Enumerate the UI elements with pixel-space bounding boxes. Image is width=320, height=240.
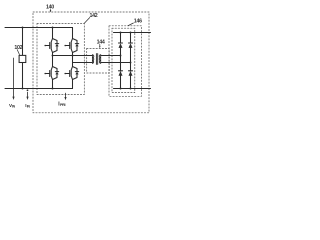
VIN measurement arrow: [13, 58, 15, 97]
leader arrow for 144: [99, 44, 101, 46]
svg-text:102: 102: [14, 45, 22, 51]
leader line for 102: [17, 50, 19, 55]
label 102: [14, 45, 22, 51]
node dot bottom bus at 102 branch: [22, 88, 24, 90]
label VIN: [9, 103, 16, 109]
label 140: [46, 4, 54, 10]
output bottom bus wire: [114, 88, 151, 90]
node dot leg B midpoint: [130, 62, 132, 64]
label IIN: [25, 103, 30, 109]
switch Q1 (upper left, with body diode): [44, 39, 58, 53]
diode D3 (upper leg B): [129, 43, 133, 48]
node dot top bus leg A: [120, 32, 122, 34]
rectifier leg B wire: [130, 33, 132, 44]
svg-text:IN: IN: [12, 105, 16, 109]
rectifier leg A wire: [120, 33, 122, 44]
bridge leg 2 wire bottom: [72, 80, 74, 89]
outer dashed box 140 (DC-DC converter): [33, 12, 149, 113]
bridge leg 1 wire middle: [52, 53, 54, 67]
node dot top bus at leg 1: [52, 27, 54, 29]
leader arrow for 140: [50, 10, 52, 12]
diode D4 (lower leg B): [129, 71, 133, 76]
svg-text:144: 144: [97, 40, 105, 46]
bridge leg 2 wire middle: [72, 53, 74, 67]
switch Q4 (lower right, with body diode): [64, 67, 78, 80]
bridge leg 2 wire top: [72, 28, 74, 39]
rectifier inner dashed box 146: [112, 28, 135, 92]
bridge leg 1 wire top: [52, 28, 54, 39]
node dot bottom bus leg B: [130, 88, 132, 90]
secondary wire to rectifier leg A: [101, 55, 121, 57]
component 102 (input sensor box): [22, 28, 24, 56]
switch Q2 (lower left, with body diode): [44, 67, 58, 80]
IPRI measurement arrow: [65, 93, 67, 97]
diode D2 (lower leg A): [119, 71, 123, 76]
node dot leg 1 midpoint: [52, 55, 54, 57]
svg-text:PRI: PRI: [60, 103, 66, 107]
primary wire leg1 mid to transformer: [53, 55, 93, 57]
transformer dashed box 144: [87, 48, 110, 73]
secondary return wire to rectifier leg B: [101, 62, 131, 64]
svg-text:IN: IN: [27, 105, 31, 109]
svg-text:146: 146: [134, 19, 142, 25]
transformer T1 secondary winding: [100, 55, 102, 64]
IIN measurement arrow: [27, 89, 29, 91]
rectifier outer dashed box 148: [109, 26, 142, 97]
label IPRI: [58, 102, 65, 108]
primary return wire leg2 mid to transformer: [73, 62, 93, 64]
node dot bottom bus at leg 1: [52, 88, 54, 90]
node dot bottom bus leg A: [120, 88, 122, 90]
node dot top bus leg B: [130, 32, 132, 34]
node dot top bus at 102 branch: [22, 27, 24, 29]
label 142: [90, 13, 98, 19]
diode D1 (upper leg A): [119, 43, 123, 48]
leader line for 142: [84, 18, 90, 24]
bottom input bus wire: [5, 88, 73, 90]
output top bus wire: [114, 32, 151, 34]
top input bus wire: [5, 27, 73, 29]
inverter dashed box 142: [37, 24, 84, 95]
leader line for 146: [128, 23, 133, 26]
node dot leg A midpoint: [120, 55, 122, 57]
bridge leg 1 wire bottom: [52, 80, 54, 89]
transformer core: [96, 54, 97, 65]
switch Q3 (upper right, with body diode): [64, 39, 78, 53]
svg-text:142: 142: [90, 13, 98, 19]
node dot crossing leg2: [72, 55, 74, 57]
transformer T1 primary winding: [91, 55, 93, 64]
label 144: [97, 40, 105, 46]
label 146: [134, 19, 142, 25]
